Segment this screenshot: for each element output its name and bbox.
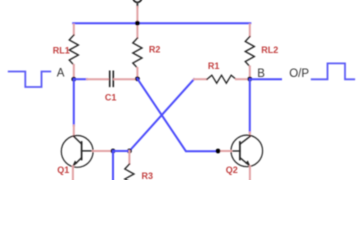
wire node B to O/P	[250, 78, 281, 80]
transistor Q1	[61, 136, 111, 181]
resistor RL1	[69, 24, 78, 79]
svg-text:R2: R2	[149, 45, 161, 55]
svg-text:RL2: RL2	[261, 45, 278, 55]
node R3 top junction	[127, 149, 132, 154]
node R2/C1	[135, 76, 140, 81]
svg-text:Q2: Q2	[226, 165, 238, 175]
wire cross diagonal R2 node to Q2 base	[137, 79, 218, 151]
svg-text:R3: R3	[142, 171, 154, 180]
svg-text:R1: R1	[208, 61, 220, 71]
input waveform symbol	[9, 72, 51, 88]
resistor RL2	[245, 24, 254, 79]
supply terminal	[133, 0, 142, 7]
resistor R2	[133, 38, 142, 79]
capacitor C1	[87, 71, 137, 86]
output waveform symbol	[312, 63, 355, 79]
node Q2 base junction	[216, 149, 221, 154]
resistor R3	[125, 151, 134, 194]
transistor Q2	[218, 135, 263, 180]
wire supply lead to R2 top	[136, 7, 138, 38]
wire node A down to Q1 collector	[73, 79, 75, 136]
svg-text:O/P: O/P	[289, 68, 309, 80]
resistor R1	[194, 75, 250, 83]
wire Q1 junction down	[112, 151, 114, 180]
wire top rail	[73, 22, 250, 24]
svg-text:A: A	[57, 67, 65, 79]
svg-text:Q1: Q1	[57, 165, 69, 175]
node B	[247, 77, 252, 82]
wire between base junctions	[113, 150, 129, 152]
wire node B down to Q2 collector	[249, 79, 251, 136]
wire cross diagonal R1 left to R3 node	[129, 79, 194, 151]
svg-text:RL1: RL1	[53, 45, 70, 55]
wire node A to C1	[74, 78, 87, 80]
node A	[71, 77, 76, 82]
junction supply/rail	[135, 21, 140, 26]
node Q1 base junction	[111, 149, 116, 154]
svg-text:C1: C1	[105, 93, 117, 103]
